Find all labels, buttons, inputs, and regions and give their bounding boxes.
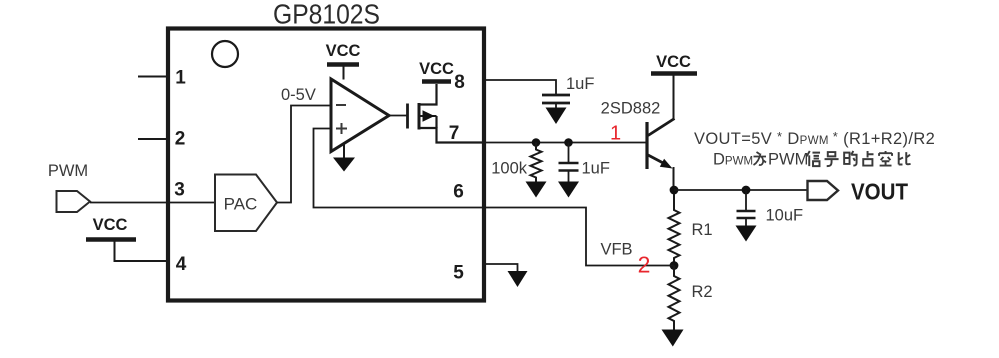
- svg-text:VOUT=5V * DPWM * (R1+R2)/R2: VOUT=5V * DPWM * (R1+R2)/R2: [694, 129, 935, 148]
- PAC block: [215, 175, 277, 232]
- formula line 2 DPWM duty-cycle note: [713, 151, 753, 169]
- hanzi 号: [825, 152, 839, 166]
- VCC symbol at Q1 collector: rail bar: [651, 71, 697, 76]
- IC U1 GP8102S package outline: [168, 29, 484, 301]
- capacitor C2 1uF bottom plate: [559, 169, 579, 172]
- capacitor C2 wire from pin7: [568, 143, 570, 163]
- svg-text:1uF: 1uF: [582, 160, 610, 178]
- svg-text:PWM: PWM: [768, 151, 808, 169]
- hanzi 的: [844, 151, 856, 166]
- wire VCC to pin 4: [115, 241, 167, 261]
- svg-text:2SD882: 2SD882: [601, 100, 661, 118]
- wire PAC output to op-amp inverting input: [277, 106, 331, 203]
- MOSFET M1 drain lead to VCC: [420, 84, 437, 105]
- pin-1 indicator circle: [212, 41, 238, 67]
- capacitor C1 1uF bottom plate: [542, 102, 570, 105]
- ground under R2: [662, 330, 684, 347]
- transistor Q1 emitter diagonal: [648, 155, 666, 165]
- svg-text:2: 2: [638, 252, 651, 278]
- VCC symbol at MOSFET/pin 8: rail bar: [422, 79, 451, 84]
- op-amp U2 triangle: [331, 79, 389, 152]
- svg-text:VOUT: VOUT: [851, 179, 909, 205]
- wire op-amp bottom to ground: [343, 144, 345, 158]
- node 2 junction dot at R1/R2/VFB: [670, 261, 679, 270]
- MOSFET M1 body-source tie: [435, 116, 437, 128]
- svg-text:100k: 100k: [491, 160, 528, 178]
- resistor 100k body: [531, 143, 542, 183]
- resistor R2 body: [669, 266, 680, 331]
- hanzi 占: [863, 151, 873, 166]
- svg-text:GP8102S: GP8102S: [273, 0, 380, 30]
- wire output node to VOUT connector: [674, 189, 808, 191]
- svg-text:VCC: VCC: [419, 60, 454, 78]
- wire collector to VCC: [673, 76, 675, 121]
- transistor Q1 emitter arrowhead: [660, 159, 673, 169]
- svg-text:PWM: PWM: [48, 162, 88, 180]
- svg-text:8: 8: [454, 72, 465, 93]
- ground under 100k: [526, 182, 547, 198]
- pin 1 stub wire: [138, 76, 166, 78]
- svg-text:3: 3: [174, 180, 185, 201]
- wire C2 to ground: [568, 171, 570, 183]
- svg-text:VCC: VCC: [93, 216, 128, 234]
- svg-text:VFB: VFB: [600, 241, 632, 259]
- wire node to capacitor C3: [745, 190, 747, 210]
- capacitor C3 10uF bottom plate: [737, 217, 756, 220]
- svg-text:1: 1: [175, 68, 186, 89]
- transistor Q1 collector diagonal: [648, 119, 675, 136]
- svg-text:PAC: PAC: [224, 195, 258, 214]
- ground under C3: [736, 226, 757, 242]
- ground at pin 5: [508, 271, 528, 287]
- ground under C2: [558, 182, 579, 198]
- svg-text:VCC: VCC: [656, 53, 691, 71]
- junction dot on pin7 net at C2: [564, 138, 573, 147]
- hanzi 为: [754, 152, 767, 165]
- capacitor C3 10uF top plate: [737, 210, 756, 213]
- transistor Q1 base bar: [645, 122, 648, 169]
- svg-text:7: 7: [449, 123, 460, 144]
- svg-text:5: 5: [453, 263, 464, 284]
- wire pin 8 to bypass cap: [486, 80, 556, 94]
- wire op-amp non-inverting input to pin 6: [314, 129, 485, 208]
- op-amp inverting input minus sign: [336, 104, 346, 106]
- wire emitter to output node: [673, 167, 675, 190]
- svg-text:4: 4: [176, 254, 187, 275]
- svg-text:VCC: VCC: [326, 42, 361, 60]
- svg-text:DPWM: DPWM: [713, 151, 753, 169]
- capacitor C2 1uF top plate: [559, 162, 579, 165]
- wire pin 5 to ground: [486, 264, 518, 272]
- ground under op-amp: [333, 158, 355, 172]
- op-amp non-inverting input plus sign: [336, 128, 347, 130]
- svg-text:10uF: 10uF: [766, 207, 804, 225]
- VCC symbol at pin 4: rail bar: [86, 237, 136, 242]
- MOSFET M1 body lead: [420, 115, 437, 117]
- MOSFET M1 source lead to pin 7: [420, 128, 486, 143]
- MOSFET M1 gate bar: [406, 104, 409, 129]
- MOSFET M1 channel bar: [418, 103, 421, 130]
- hanzi 信: [807, 151, 821, 166]
- junction dot at 10uF: [742, 186, 751, 195]
- ground under C1: [546, 108, 567, 125]
- capacitor C1 1uF top plate: [542, 94, 570, 97]
- resistor R1 body: [669, 194, 680, 266]
- svg-text:0-5V: 0-5V: [281, 86, 316, 104]
- wire pin 7 to transistor base: [486, 142, 646, 144]
- node 1 junction dot at emitter/R1: [670, 186, 679, 195]
- wire pin 6 to VFB node: [486, 208, 674, 266]
- VCC symbol above op-amp: rail bar: [327, 62, 359, 67]
- svg-text:R1: R1: [692, 221, 713, 239]
- hanzi 比: [899, 152, 911, 164]
- wire C1 to ground: [555, 103, 557, 109]
- hanzi 空: [879, 151, 892, 166]
- MOSFET M1 body arrow: [423, 110, 435, 122]
- wire PWM to pin 3 and PAC: [90, 202, 215, 204]
- svg-text:2: 2: [175, 129, 186, 150]
- svg-text:1: 1: [610, 123, 621, 145]
- VOUT port connector: [808, 181, 839, 200]
- junction dot on pin7 net at 100k: [532, 138, 541, 147]
- pin 2 stub wire: [138, 138, 166, 140]
- svg-text:6: 6: [453, 182, 464, 203]
- svg-text:1uF: 1uF: [566, 75, 594, 93]
- wire C3 to ground: [745, 218, 747, 226]
- wire op-amp output to MOSFET gate: [389, 115, 408, 117]
- svg-text:R2: R2: [692, 283, 713, 301]
- PWM input port connector: [57, 191, 91, 212]
- wire VCC bar to op-amp top: [343, 66, 345, 80]
